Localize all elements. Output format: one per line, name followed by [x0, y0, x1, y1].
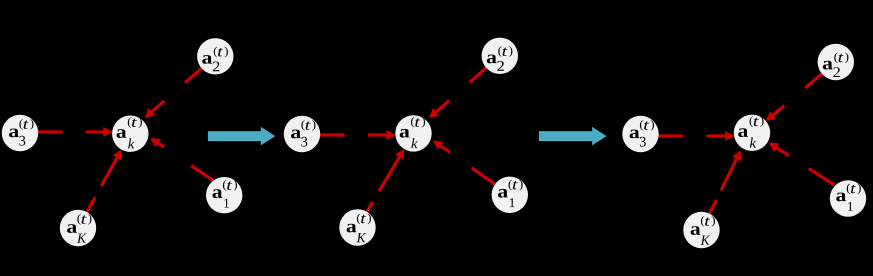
wire dashed red arrow K to k, panel 1	[87, 149, 122, 212]
node 2 panel 2	[482, 38, 518, 74]
wire dashed red arrow 2 to k, panel 2	[429, 68, 486, 118]
wire dashed red arrow 3 to k, panel 3	[658, 131, 734, 141]
node k panel 2	[395, 115, 431, 151]
wire dashed red arrow 2 to k, panel 3	[766, 74, 822, 121]
node 2 panel 1	[197, 38, 233, 74]
wire dashed red arrow 2 to k, panel 1	[145, 68, 202, 118]
wire dashed red arrow 1 to k, panel 3	[769, 143, 835, 186]
node K panel 2	[339, 209, 375, 245]
wire dashed red arrow 1 to k, panel 2	[433, 140, 495, 184]
blue transition arrow 2	[539, 127, 607, 146]
wire dashed red arrow K to k, panel 2	[367, 149, 404, 212]
node 3 panel 2	[284, 116, 320, 152]
wire dashed red arrow 1 to k, panel 1	[150, 138, 213, 181]
node 1 panel 3	[830, 180, 866, 216]
node K panel 1	[60, 210, 96, 246]
wire dashed red arrow K to k, panel 3	[710, 150, 741, 213]
wire dashed red arrow 3 to k, panel 2	[320, 130, 396, 140]
node K panel 3	[683, 212, 719, 248]
node k panel 3	[734, 115, 770, 151]
node 3 panel 1	[2, 115, 38, 151]
node 2 panel 3	[818, 44, 854, 80]
node k panel 1	[112, 116, 148, 152]
node 1 panel 2	[492, 177, 528, 213]
node 1 panel 1	[206, 177, 242, 213]
blue transition arrow 1	[208, 127, 275, 146]
wire dashed red arrow 3 to k, panel 1	[38, 127, 113, 137]
node 3 panel 3	[622, 116, 658, 152]
